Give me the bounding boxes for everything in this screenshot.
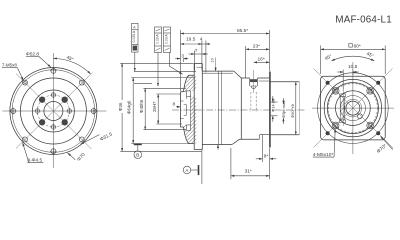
outer bolt hole 315deg [79,80,84,85]
center bore phi14 [346,101,360,115]
dim 4 [200,37,210,45]
label phi52.8 [26,52,51,68]
screw bolt circle dashed [328,84,377,133]
dim phi40h6 vertical [139,88,145,129]
hub circle [336,91,371,126]
svg-text:Φ64g6: Φ64g6 [127,100,132,114]
center bore [44,102,63,121]
neck [259,81,270,139]
svg-text:19.5: 19.5 [186,37,196,43]
svg-text:3: 3 [181,53,184,59]
inner hole 180deg [34,108,40,114]
dim 19.5 [181,37,202,45]
corner hole TR [376,81,380,85]
ext line 7 left [194,51,196,71]
centerline horizontal [312,107,394,109]
45deg arc [324,51,375,62]
label phi70 [376,136,393,155]
svg-text:28H7: 28H7 [152,101,157,112]
centerline horizontal [2,110,106,112]
centerline vertical [352,62,354,154]
housing lip line [202,72,233,74]
label 10 callout [211,58,216,72]
datum A [183,150,202,184]
chamfer bottom [232,139,240,144]
centerline diagonal 45 [16,74,92,150]
hidden lines clamp bore [251,92,256,112]
screw hole BR [367,122,374,129]
mounting plate [194,64,202,150]
svg-text:Φ40h6: Φ40h6 [139,99,144,113]
ext line 85.5/23/16 right [268,30,270,71]
output flange disc [184,75,195,143]
bore step [184,105,187,116]
svg-text:Φ36: Φ36 [118,102,123,111]
main housing [202,71,234,144]
outer bolt hole 135deg [23,137,28,142]
clamp screw [250,78,258,88]
dim 28H7 vertical [152,94,158,124]
dim square60 [321,43,386,49]
inner hole 315deg filled [62,97,68,103]
svg-text:Φ50·Υ8: Φ50·Υ8 [290,103,295,118]
diagonal centerline 2 [314,69,393,148]
svg-text:B: B [136,153,139,158]
label 45deg with arc [53,55,90,74]
outer bolt hole 225deg M5 [23,80,28,85]
svg-text:MAF-064-L1: MAF-064-L1 [335,15,391,26]
svg-text:4: 4 [200,37,203,43]
tick below housing [217,145,219,150]
flange face [268,72,271,148]
dim phi36 vertical [118,63,123,151]
svg-text:16*: 16* [258,57,265,63]
ring section [240,78,270,139]
svg-text:7: 7 [195,48,198,54]
label 4-M5x10 [313,129,335,158]
dim 23 [246,44,270,50]
ext line 85.5 left [180,30,182,91]
inner hole 270deg [50,92,56,98]
svg-text:85.5*: 85.5* [237,28,248,34]
dim 16 [254,57,270,63]
circle phi31.5 [32,90,74,132]
screw centerline [253,70,255,93]
gdt box 3 [164,27,183,74]
ext line 23 [245,46,247,78]
housing joint lines [218,71,221,144]
dim 85.5 [181,28,270,34]
svg-text:0.03 A: 0.03 A [155,34,159,44]
bore chamfer circle [344,99,362,117]
label phi31.5 [81,131,114,144]
svg-text:0.025 A: 0.025 A [132,30,136,42]
svg-text:23*: 23* [253,44,260,50]
svg-text:60*: 60* [354,43,361,49]
dim phi50 [290,82,296,135]
svg-text:Φ14·k6: Φ14·k6 [271,98,276,112]
corner hole BR [376,131,380,135]
spigot bore lines [180,101,183,119]
output spigot [180,92,183,127]
svg-text:10: 10 [211,58,215,62]
outer bolt hole 270deg [50,67,57,74]
dim 8 bottom right [256,135,276,179]
svg-text:8*: 8* [264,153,269,159]
chamfer top [234,71,242,78]
ext lines square60 [320,46,322,75]
svg-text:0.03 A: 0.03 A [164,34,168,44]
centerline [172,109,306,111]
inner hole 0deg [66,108,72,114]
svg-text:31*: 31* [245,168,252,174]
svg-text:7-M5x8: 7-M5x8 [2,63,18,68]
plate step line [197,66,203,68]
screw hole BL [332,122,339,129]
screw hole TR [367,88,374,95]
bearing rect bottom [187,125,191,130]
inner hole 135deg filled [39,119,45,125]
boss circle phi57 [324,79,381,136]
corner hole TL [326,81,330,85]
inner hole 90deg [50,124,56,130]
svg-text:8: 8 [173,102,176,108]
input boss [270,82,299,135]
outer bolt hole 90deg [50,148,57,155]
pilot circle phi50 [327,83,378,134]
outer bolt hole 45deg [79,137,84,142]
dim 3 [175,53,188,62]
clamp slot [340,90,346,126]
dim 10.5 [337,64,359,90]
svg-text:Φ5j6 max: Φ5j6 max [281,101,286,118]
centerline vertical [52,53,54,168]
datum B [134,144,142,159]
dim phi16j5 max [281,98,286,124]
label 8 spigot [173,102,181,108]
label 7-M5x8 [2,63,23,81]
outer circle flange [10,68,97,155]
dim 7 [189,48,209,54]
gdt box 2 [155,27,162,86]
inner hole 225deg filled [39,97,45,103]
dim phi64g6 vertical [127,78,134,144]
gdt box 1 [132,23,138,71]
phi70 bolt circle [318,73,389,144]
bearing rect top [187,91,191,96]
hub step circle [340,96,365,121]
inner hole 45deg filled [62,119,68,125]
centerline diagonal 135 [16,73,93,149]
dim phi14 k6 [271,96,278,122]
clamp access hole [358,114,363,119]
corner hole BL [326,131,330,135]
outer bolt hole 0deg [90,108,97,115]
disc inner profile lines [184,91,191,127]
boss right face [298,82,300,135]
square flange [321,76,386,140]
bolt circle dashed inner [37,95,69,127]
label phi70 [68,152,87,163]
ext lines left dims [120,62,193,64]
rim circle [12,70,95,153]
screw hole TL [332,88,339,95]
circle phi52.8 [20,78,86,144]
ext line 19.5/4 [201,41,203,71]
dim 31 bottom [231,148,270,179]
label 8-phi4.5 [23,143,44,164]
outer bolt hole 180deg [10,108,17,115]
diagonal centerline 1 [314,69,394,149]
hatch top flange disc [184,76,196,144]
